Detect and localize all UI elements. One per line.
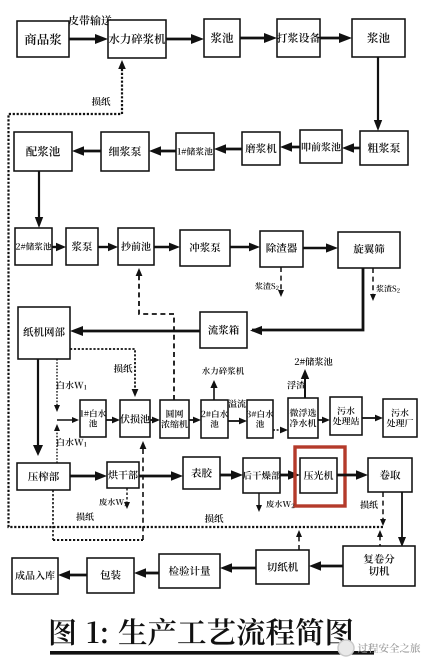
arrow 圆网浓缩机→2#白水池 xyxy=(189,417,201,424)
arrow 1#储浆池→细浆泵 xyxy=(149,146,176,156)
wire 除渣器 浆渣S2 xyxy=(255,267,284,297)
arrow 抄前池→冲浆泵 xyxy=(154,243,180,252)
box 微浮选净水机 xyxy=(288,398,318,438)
arrow 浆池→打浆设备 xyxy=(240,33,277,43)
wire 浆池→粗浆泵 xyxy=(374,57,382,131)
wire 微浮选净水机→2#储浆池 xyxy=(301,369,309,398)
box 配浆池 xyxy=(14,132,72,171)
box 切纸机 xyxy=(256,550,309,584)
arrow 微浮选净水机→污水处理站 xyxy=(318,417,330,424)
box 流浆箱 xyxy=(200,312,247,348)
box 1#白水池 xyxy=(80,400,106,437)
wire 白水W1 up xyxy=(54,424,86,463)
arrow 除渣器→旋翼筛 xyxy=(303,243,338,252)
arrow 2#白水池→3#白水池 xyxy=(228,418,247,425)
box 卷取 xyxy=(368,458,412,492)
box 伏损池 xyxy=(120,400,150,437)
arrow 冲浆泵→除渣器 xyxy=(230,243,260,252)
label 损纸 left xyxy=(76,512,94,520)
wire 纸机网部→压榨部 xyxy=(33,359,43,456)
box 打浆设备 xyxy=(277,19,321,57)
caption underline xyxy=(50,651,374,655)
box 3#白水池 xyxy=(247,400,274,438)
box 粗浆泵 xyxy=(360,131,408,165)
red highlight 压光机 xyxy=(295,447,345,506)
wire 切纸机 损纸 up xyxy=(296,530,302,550)
label 损纸 bottom mid xyxy=(205,514,224,523)
box 旋翼筛 xyxy=(338,232,400,268)
wire 复卷分切机 损纸 up xyxy=(377,530,383,549)
arrow 细浆泵→配浆池 xyxy=(72,146,101,156)
arrow 切纸机→检验计量 xyxy=(220,563,256,573)
arrow 伏损池→圆网浓缩机 xyxy=(150,417,160,424)
box 污水处理厂 xyxy=(383,399,417,437)
box 浆池 B xyxy=(352,19,405,57)
box 1#储浆池 xyxy=(176,133,214,170)
box 圆网浓缩机 xyxy=(160,400,189,438)
arrow 压光机→卷取 xyxy=(337,470,368,480)
label 2#储浆池 2 xyxy=(295,357,333,366)
wire 纸机网部→伏损池 dotted xyxy=(70,349,138,397)
box 叩前浆池 xyxy=(300,130,342,163)
label 损纸 mid xyxy=(114,364,133,373)
box 检验计量 xyxy=(159,554,220,588)
label 溢流 xyxy=(228,399,246,407)
box 2#储浆池 xyxy=(15,228,52,265)
wire 压榨部→伏损池 dashed xyxy=(53,441,146,540)
arrow 商品浆→水力碎浆机 xyxy=(69,34,108,44)
box 除渣器 xyxy=(260,231,303,267)
arrow 粗浆泵→叩前浆池 xyxy=(342,143,360,153)
wire 卷取→复卷分切机 xyxy=(398,492,406,547)
box 细浆泵 xyxy=(101,132,149,171)
box 成品入库 xyxy=(12,558,58,594)
arrow 1#白水池→伏损池 xyxy=(106,417,120,424)
box 磨浆机 xyxy=(242,132,280,165)
label 皮带输送 xyxy=(68,15,111,25)
arrow 烘干部→表胶 xyxy=(139,471,183,481)
box 浆泵 xyxy=(66,228,98,265)
box 复卷分切机 xyxy=(343,546,415,586)
box 浆池 A xyxy=(204,19,240,57)
arrow 流浆箱→纸机网部 xyxy=(70,326,200,336)
caption 图1 xyxy=(51,618,352,646)
box 压榨部 xyxy=(17,463,70,490)
box 纸机网部 xyxy=(18,307,70,359)
arrow 复卷分切机→切纸机 xyxy=(309,561,343,571)
arrow 打浆设备→浆池 xyxy=(320,33,352,43)
wire 损纸 main loop xyxy=(9,60,384,527)
box 烘干部 xyxy=(107,462,139,488)
wire 2#白水池→水力碎浆机 xyxy=(210,380,217,400)
arrow 浆泵→抄前池 xyxy=(98,243,118,251)
wire 烘干部 废水W2 xyxy=(99,488,130,509)
arrow 污水处理站→污水处理厂 xyxy=(362,415,383,422)
box 抄前池 xyxy=(118,228,154,265)
arrow 包装→成品入库 xyxy=(58,570,87,580)
wire 后干燥部 废水W2 xyxy=(256,493,294,512)
box 商品浆 xyxy=(17,21,69,57)
arrow 磨浆机→1#储浆池 xyxy=(214,144,242,154)
wire 卷取 损纸 down xyxy=(380,492,386,526)
arrow 压榨部→烘干部 xyxy=(70,471,107,481)
arrow 2#储浆池→浆泵 xyxy=(52,243,66,251)
wire 旋翼筛→流浆箱 xyxy=(250,268,363,335)
label 水力碎浆机 2 xyxy=(202,367,244,375)
wire 旋翼筛 浆渣S2 xyxy=(370,268,400,301)
label 损纸 卷取 xyxy=(360,500,378,508)
box 包装 xyxy=(87,558,134,593)
wire 圆网浓缩机→抄前池 dashed xyxy=(136,268,174,400)
arrow 叩前浆池→磨浆机 xyxy=(280,142,300,152)
watermark 过程安全之旅 xyxy=(338,640,420,656)
box 污水处理站 xyxy=(330,397,362,435)
box 冲浆泵 xyxy=(180,230,230,266)
label 损纸 top xyxy=(92,97,111,106)
arrow 检验计量→包装 xyxy=(134,568,159,578)
box 后干燥部 xyxy=(243,458,281,493)
arrow 3#白水池→微浮选净水机 xyxy=(273,427,288,434)
wire →1#白水池 xyxy=(57,417,79,423)
wire 配浆池→2#储浆池 xyxy=(35,171,43,228)
arrow 表胶→后干燥部 xyxy=(220,470,243,480)
arrow 水力碎浆机→浆池 xyxy=(166,34,204,44)
arrow 后干燥部→压光机 xyxy=(280,470,300,480)
box 水力碎浆机 xyxy=(108,20,166,58)
label 浮渣 xyxy=(287,381,305,390)
box 2#白水池 xyxy=(201,400,228,438)
box 压光机 xyxy=(300,458,337,493)
box 表胶 xyxy=(183,457,220,489)
wire 白水W1 down xyxy=(54,359,86,412)
